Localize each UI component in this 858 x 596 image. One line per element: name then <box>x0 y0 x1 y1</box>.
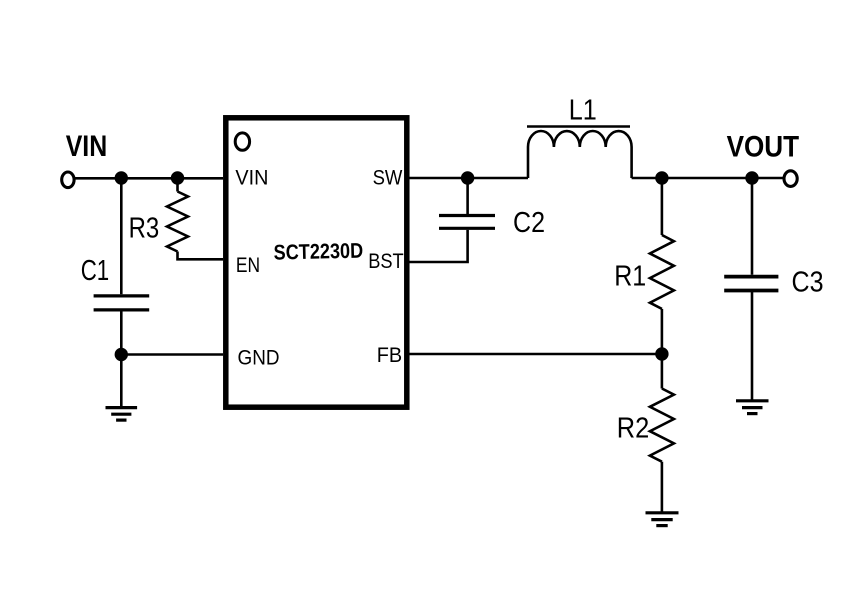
label C3 <box>792 266 824 298</box>
svg-text:BST: BST <box>368 249 404 273</box>
junction R1 top <box>655 171 668 184</box>
pin GND <box>238 346 280 370</box>
capacitor C3 <box>724 277 778 291</box>
wire VIN rail <box>74 177 223 180</box>
wire R1 top stub <box>661 178 664 235</box>
pin FB <box>377 343 402 367</box>
resistor R1 <box>650 235 674 309</box>
wire SW to L1 <box>410 177 529 180</box>
ground (C3) <box>736 401 769 414</box>
wire GND pin <box>121 353 223 356</box>
pin BST <box>368 249 404 273</box>
svg-text:C2: C2 <box>513 207 545 239</box>
pin-1 marker circle <box>235 133 249 150</box>
wire C3 bottom to ground <box>751 292 754 400</box>
wire R3 top stub <box>176 178 179 192</box>
wire C2 bottom to BST <box>410 230 468 262</box>
wire R2 bottom to ground <box>661 462 664 512</box>
wire R2 top stub <box>661 354 664 389</box>
wire FB pin <box>410 353 662 356</box>
node VOUT label <box>727 130 800 163</box>
svg-text:SCT2230D: SCT2230D <box>273 239 363 265</box>
svg-text:VIN: VIN <box>66 130 108 163</box>
svg-text:EN: EN <box>236 253 260 277</box>
label C2 <box>513 207 545 239</box>
wire R3 bottom to EN <box>178 252 224 260</box>
label C1 <box>81 255 110 287</box>
label R1 <box>614 261 646 293</box>
pin EN <box>236 253 260 277</box>
capacitor C1 <box>94 296 150 310</box>
wire C1 branch upper <box>120 178 123 294</box>
pin VIN <box>235 166 268 190</box>
junction FB node <box>655 347 668 360</box>
svg-text:FB: FB <box>377 343 402 367</box>
wire C2 top stub <box>466 178 469 214</box>
svg-text:GND: GND <box>238 346 280 370</box>
wire R1 bottom to FB node <box>661 309 664 354</box>
label R3 <box>129 213 160 245</box>
op-amp U1 SCT2230D box <box>226 118 407 407</box>
value SCT2230D <box>273 239 363 265</box>
svg-text:R3: R3 <box>129 213 160 245</box>
terminal VIN <box>62 172 74 188</box>
svg-text:VIN: VIN <box>235 166 268 190</box>
junction R3 top <box>171 171 184 184</box>
label R2 <box>617 412 650 444</box>
terminal VOUT <box>784 171 797 187</box>
node VIN label <box>66 130 108 163</box>
junction C1 top <box>115 171 128 184</box>
wire L1 to VOUT <box>632 177 784 180</box>
junction SW node <box>461 171 474 184</box>
capacitor C2 <box>439 216 495 229</box>
svg-text:C1: C1 <box>81 255 110 287</box>
ground (R2) <box>646 513 679 526</box>
svg-text:R1: R1 <box>614 261 646 293</box>
junction GND node <box>115 348 128 361</box>
junction VOUT node <box>745 171 758 184</box>
wire C3 top stub <box>751 178 754 275</box>
resistor R3 <box>167 192 188 252</box>
ground (C1) <box>106 408 138 421</box>
inductor L1 <box>527 127 632 179</box>
svg-text:VOUT: VOUT <box>727 130 800 163</box>
wire C1 bottom to gnd node <box>120 312 123 355</box>
resistor R2 <box>650 389 674 462</box>
label L1 <box>569 95 597 127</box>
svg-text:R2: R2 <box>617 412 650 444</box>
wire to ground C1 <box>120 355 123 408</box>
svg-text:C3: C3 <box>792 266 824 298</box>
svg-text:SW: SW <box>373 166 404 190</box>
pin SW <box>373 166 404 190</box>
svg-text:L1: L1 <box>569 95 597 127</box>
